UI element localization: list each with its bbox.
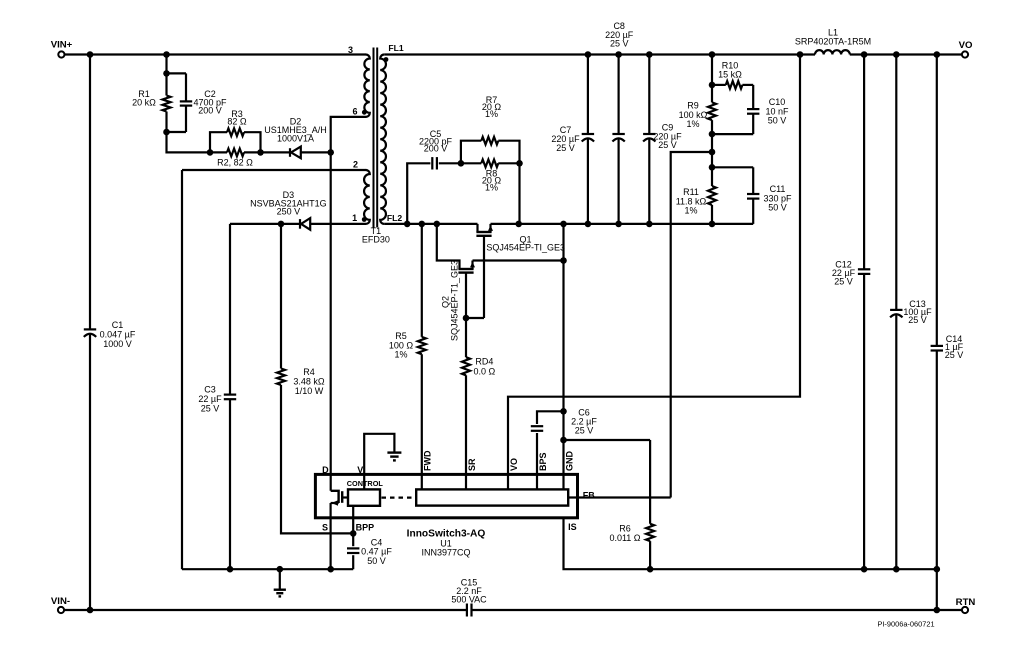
svg-text:0.0 Ω: 0.0 Ω [474, 366, 496, 376]
node R1/C2 bottom [163, 129, 170, 136]
node C3/low rail [227, 566, 234, 573]
node BPS/GND junction [560, 408, 567, 415]
node U1 feedback block [416, 489, 568, 505]
node C14 top [934, 51, 941, 58]
node R2/R3 right [257, 149, 264, 156]
resistor R3 [210, 132, 227, 152]
svg-text:D: D [322, 465, 329, 475]
capacitor C5 [407, 163, 430, 224]
wire VIN+ top rail [65, 53, 367, 55]
svg-text:VO: VO [509, 458, 519, 471]
svg-text:1%: 1% [485, 109, 498, 119]
svg-text:22 µF: 22 µF [198, 394, 222, 404]
capacitor C6 [536, 433, 538, 489]
resistor R4 [280, 224, 282, 369]
svg-text:1: 1 [352, 213, 357, 223]
capacitor C1 [89, 55, 91, 330]
svg-text:VIN-: VIN- [51, 596, 70, 607]
wire snubber right riser [518, 163, 520, 224]
svg-text:1000 V: 1000 V [103, 339, 132, 349]
wire pin6 lead [331, 117, 367, 152]
wire FB line [568, 496, 671, 498]
svg-text:V: V [357, 465, 363, 475]
svg-text:EFD30: EFD30 [362, 235, 390, 245]
svg-text:R4: R4 [303, 367, 315, 377]
capacitor C13 [895, 55, 897, 310]
wire IS pin rail [564, 518, 937, 569]
svg-text:50 V: 50 V [367, 556, 386, 566]
svg-text:25 V: 25 V [610, 39, 629, 49]
transformer T1 core [373, 48, 375, 228]
wire R1/C2 top tap [165, 55, 167, 74]
wire FL1 to L1 [384, 53, 815, 55]
wire left low rail [182, 568, 353, 570]
node VIN-/C1 junction [87, 607, 94, 614]
wire S pin [327, 566, 334, 573]
capacitor C14 [936, 55, 938, 346]
svg-text:25 V: 25 V [201, 404, 220, 414]
node C14/RTN junction [934, 607, 941, 614]
op-amp U1 InnoSwitch3-AQ box [315, 474, 577, 517]
svg-text:SQJ454EP-T1_GE3: SQJ454EP-T1_GE3 [450, 260, 460, 341]
transistor Q1 [476, 224, 478, 232]
node snubber right [516, 160, 523, 167]
node Q2 source/GND [560, 257, 567, 264]
node C14/IS rail [934, 566, 941, 573]
wire R1 bottom to R2 [167, 132, 211, 152]
svg-text:RTN: RTN [956, 597, 976, 608]
transistor internal MOSFET U1 [331, 491, 339, 503]
capacitor C12 [863, 55, 865, 270]
resistor R7 [461, 141, 481, 164]
svg-text:2: 2 [353, 159, 358, 169]
node T1 primary phase dot [362, 110, 367, 115]
node snubber mid [458, 160, 465, 167]
capacitor C15 [466, 604, 468, 617]
svg-text:SR: SR [467, 458, 477, 471]
svg-text:1%: 1% [394, 350, 407, 360]
wire secondary rail right of Q1 [491, 223, 754, 225]
svg-text:FL2: FL2 [387, 213, 402, 223]
capacitor C3 [229, 224, 231, 395]
svg-text:PI-9006a-060721: PI-9006a-060721 [877, 620, 934, 629]
terminal VIN- [58, 607, 64, 613]
node FB tap [709, 149, 716, 156]
svg-text:3: 3 [348, 45, 353, 55]
svg-text:200 V: 200 V [424, 143, 448, 153]
node D2/pin6/D junction [327, 149, 334, 156]
resistor R6 [564, 439, 651, 441]
terminal RTN [962, 607, 968, 613]
resistor R1 [165, 73, 167, 95]
wire VIN- bottom rail left of C15 [64, 609, 466, 611]
resistor R10 [712, 84, 726, 86]
svg-text:250 V: 250 V [277, 207, 301, 217]
ground primary [279, 569, 281, 589]
svg-text:VIN+: VIN+ [51, 40, 73, 51]
wire R9 column top [711, 55, 713, 85]
capacitor C8 [617, 55, 619, 135]
svg-text:FL1: FL1 [388, 43, 403, 53]
svg-text:25 V: 25 V [575, 426, 594, 436]
transistor Q2 [437, 224, 460, 269]
svg-text:1/10 W: 1/10 W [295, 386, 324, 396]
capacitor C2 [167, 72, 187, 74]
svg-text:6: 6 [352, 106, 357, 116]
wire GND pin line [562, 224, 564, 490]
svg-text:C1: C1 [112, 320, 124, 330]
wire D pin riser [330, 152, 332, 490]
svg-text:S: S [322, 522, 328, 532]
svg-text:1000V1A: 1000V1A [277, 134, 314, 144]
node T1 secondary phase dot [384, 57, 389, 62]
svg-text:25 V: 25 V [834, 276, 853, 286]
capacitor C9 [648, 55, 650, 135]
node R9 bottom [709, 131, 716, 138]
wire Q2 source to GND line [473, 259, 564, 261]
svg-text:BPP: BPP [356, 522, 375, 532]
ground V pin [387, 451, 401, 453]
svg-text:25 V: 25 V [945, 350, 964, 360]
resistor R8 [461, 162, 481, 164]
svg-text:1%: 1% [686, 119, 699, 129]
node rail/GND [560, 221, 567, 228]
resistor R2 [210, 151, 227, 153]
CONTROL block U1 [348, 489, 380, 505]
svg-text:82 Ω: 82 Ω [227, 117, 247, 127]
svg-text:25 V: 25 V [908, 315, 927, 325]
svg-text:3.48 kΩ: 3.48 kΩ [293, 377, 325, 387]
svg-text:R2, 82 Ω: R2, 82 Ω [217, 158, 253, 168]
wire pin1 lead left [230, 223, 300, 225]
capacitor C7 [587, 55, 589, 135]
svg-text:500 VAC: 500 VAC [451, 595, 487, 605]
terminal VIN+ [58, 51, 64, 57]
resistor R9 [708, 102, 716, 120]
node snubber left [404, 221, 411, 228]
wire V pin [364, 434, 394, 490]
wire pin2 riser [181, 170, 183, 569]
capacitor C4 [352, 506, 354, 546]
wire L1 to VO [850, 53, 962, 55]
node VO loop top [797, 51, 804, 58]
svg-text:BPS: BPS [538, 452, 548, 471]
svg-text:GND: GND [564, 451, 574, 472]
node rail/Q2 [434, 221, 441, 228]
capacitor C10 [752, 85, 754, 109]
diode D3 [299, 219, 301, 229]
wire pin2 lead [182, 169, 367, 171]
wire bottom rail right of C15 [472, 609, 962, 611]
node D3/R4 junction [278, 221, 285, 228]
node R6/IS rail [647, 566, 654, 573]
transformer T1 secondary winding FL1-FL2 [380, 55, 386, 224]
svg-text:1%: 1% [485, 183, 498, 193]
wire Q1 gate [483, 236, 485, 318]
wire VO pin loop [508, 55, 800, 490]
svg-text:15 kΩ: 15 kΩ [718, 70, 742, 80]
node VIN+/R1 junction [163, 51, 170, 58]
transformer T1 primary winding 3-6 [364, 55, 369, 117]
wire dashed control link [382, 497, 416, 499]
inductor L1 [815, 50, 850, 54]
svg-text:IS: IS [568, 522, 577, 532]
svg-text:20 kΩ: 20 kΩ [132, 98, 156, 108]
resistor R5 [421, 224, 423, 337]
node C13 top [893, 51, 900, 58]
node T1 bias phase dot [362, 217, 367, 222]
svg-text:25 V: 25 V [658, 140, 677, 150]
svg-text:SQJ454EP-TI_GE3: SQJ454EP-TI_GE3 [486, 243, 565, 253]
resistor R11 [711, 167, 713, 186]
wire Q2 gate [465, 273, 467, 318]
terminal VO [962, 51, 968, 57]
svg-text:C3: C3 [204, 385, 216, 395]
node VIN+/C1 junction [87, 51, 94, 58]
node BPP junction [350, 530, 357, 537]
node C13/IS rail [893, 566, 900, 573]
diode D2 [261, 151, 291, 153]
svg-text:1%: 1% [684, 206, 697, 216]
node rail/FWD [419, 221, 426, 228]
transformer T1 bias winding 2-1 [364, 170, 370, 224]
wire R9-R11 link [711, 134, 713, 167]
node R9 top rail [709, 51, 716, 58]
svg-text:SRP4020TA-1R5M: SRP4020TA-1R5M [795, 37, 871, 47]
resistor RD4 [465, 318, 467, 357]
node C12 top [861, 51, 868, 58]
svg-text:RD4: RD4 [475, 357, 493, 367]
svg-text:FWD: FWD [423, 450, 433, 471]
svg-text:200 V: 200 V [198, 106, 222, 116]
svg-text:0.047 µF: 0.047 µF [100, 330, 136, 340]
capacitor C11 [712, 166, 753, 168]
svg-text:50 V: 50 V [768, 116, 787, 126]
node C12/IS rail [861, 566, 868, 573]
node rail/snubber [515, 221, 522, 228]
svg-text:50 V: 50 V [768, 203, 787, 213]
svg-text:0.011 Ω: 0.011 Ω [609, 533, 640, 543]
svg-text:INN3977CQ: INN3977CQ [421, 547, 470, 557]
svg-text:FB: FB [583, 491, 595, 501]
node R2/R3 left [207, 149, 214, 156]
svg-text:25 V: 25 V [556, 143, 575, 153]
node GND/R6 tap [560, 437, 567, 444]
svg-text:R6: R6 [619, 523, 631, 533]
svg-text:VO: VO [959, 40, 973, 51]
wire FL2 lead [384, 223, 477, 225]
wire gate tie [466, 317, 484, 319]
